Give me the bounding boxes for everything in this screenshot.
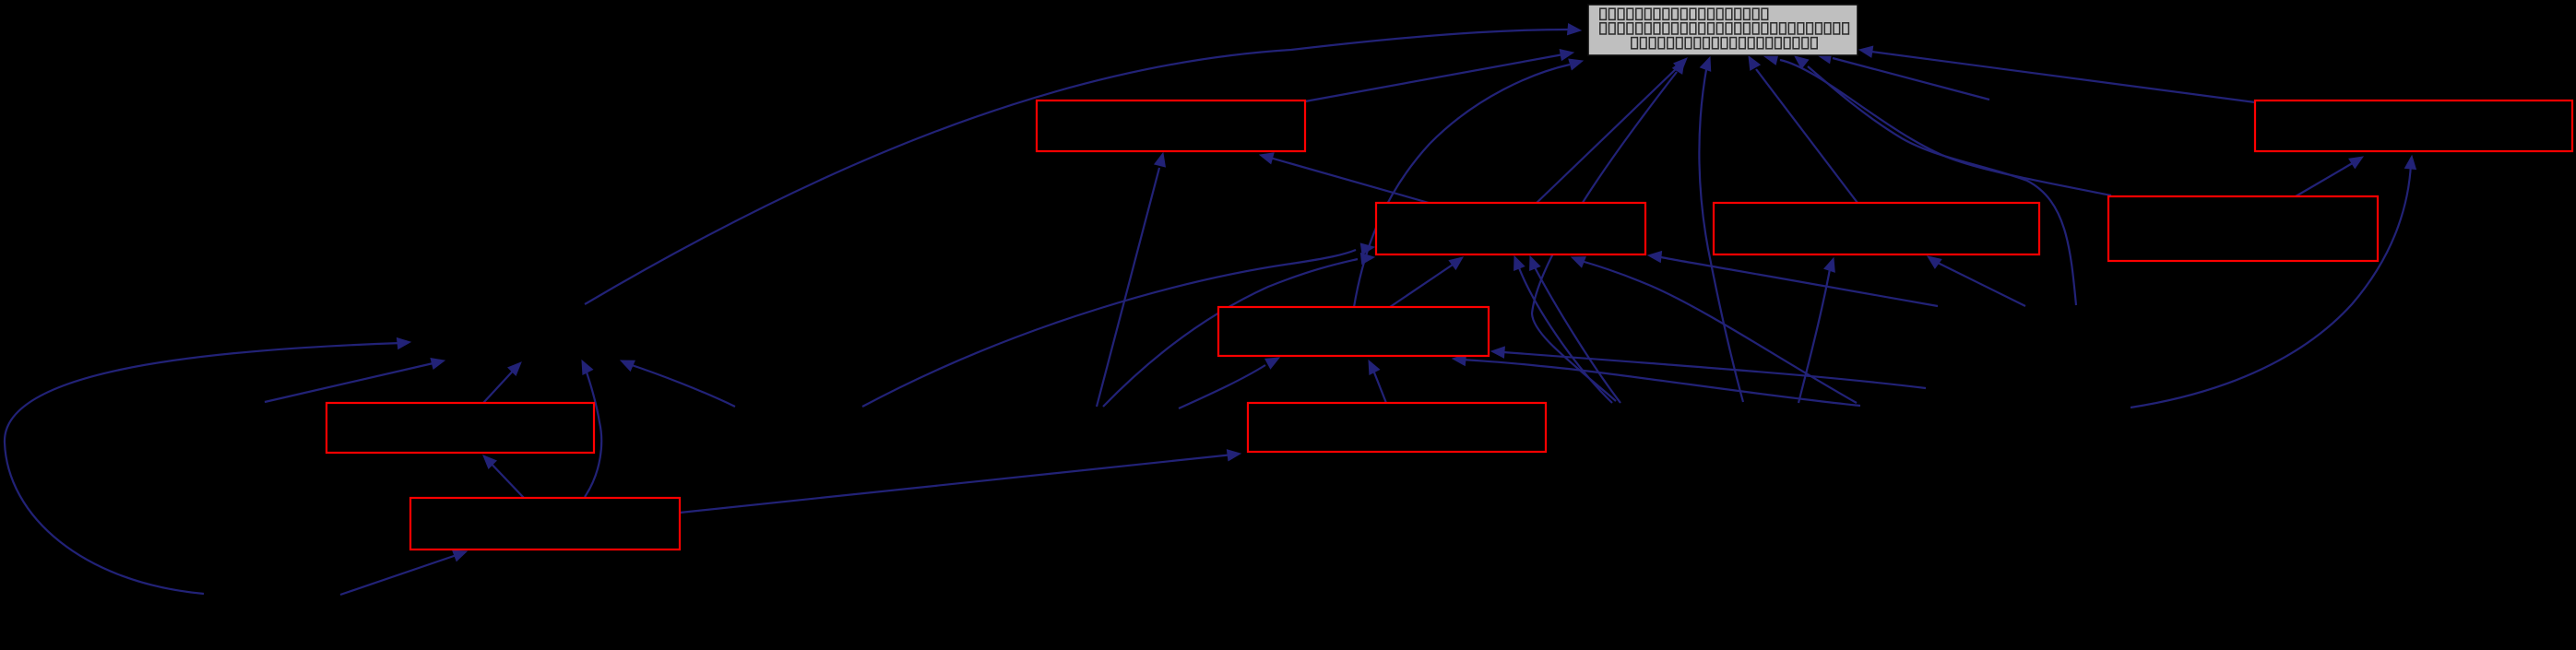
edge V2f->N3 corner	[1572, 257, 1857, 403]
edge V1->N0 (long top arc)	[585, 24, 1581, 304]
edge N2->N0	[1859, 46, 2255, 102]
node N3 (red)	[1376, 203, 1645, 254]
edge N4->N0	[1749, 56, 1858, 203]
edge F->N3	[1390, 257, 1463, 307]
edge N5->N0	[1764, 53, 2111, 195]
edge V6->V1 (big left arc)	[5, 338, 410, 594]
edge V5->N0	[1818, 53, 1989, 100]
edge V9->N1 (straight)	[1097, 153, 1165, 407]
node N6 (red)	[1218, 307, 1489, 356]
node N4 (red)	[1714, 203, 2039, 254]
edge V11->N0	[1795, 56, 2076, 305]
edge V8->N3 (long straight)	[862, 243, 1374, 407]
edge N1->N0	[1305, 50, 1573, 101]
edge F->N0	[1354, 59, 1583, 307]
edge N8->V1	[483, 362, 521, 403]
edge N9->N7	[680, 450, 1241, 513]
node N5 (red)	[2108, 196, 2378, 261]
edge V6->N9	[340, 550, 467, 595]
edge V2a->N0	[1532, 60, 1684, 401]
node N0 (gray title box)	[1588, 5, 1858, 55]
node N7 (red)	[1248, 403, 1546, 452]
node N1 (red)	[1037, 100, 1305, 151]
edge V12->F right edge	[1491, 347, 1926, 388]
edge N9->N8	[483, 455, 524, 498]
node N2 (red)	[2255, 100, 2572, 151]
edge V3->N2	[2131, 156, 2416, 408]
edge V2d->N4	[1798, 258, 1834, 403]
edge V2b2->N3	[1514, 256, 1612, 403]
edge N3->N0	[1537, 58, 1687, 203]
edge N3->N1	[1260, 153, 1429, 203]
edge V11->N3 right corner	[1648, 252, 1938, 306]
edge V8->V1	[621, 360, 735, 407]
edge V9->N3 (curved)	[1103, 254, 1374, 407]
edge N7->F	[1369, 360, 1386, 403]
edge V2b->N3	[1530, 256, 1620, 403]
node N8 (red)	[326, 403, 594, 453]
edge V9->F	[1179, 358, 1279, 408]
edge V7->V1	[265, 359, 445, 402]
edge N9->V1	[582, 360, 601, 497]
edge N5->N2	[2296, 157, 2363, 196]
edge V2e->F	[1453, 354, 1860, 406]
node N9 (red)	[410, 498, 680, 550]
edge V11->N4	[1928, 256, 2025, 306]
edge V2c->N0	[1699, 57, 1743, 402]
